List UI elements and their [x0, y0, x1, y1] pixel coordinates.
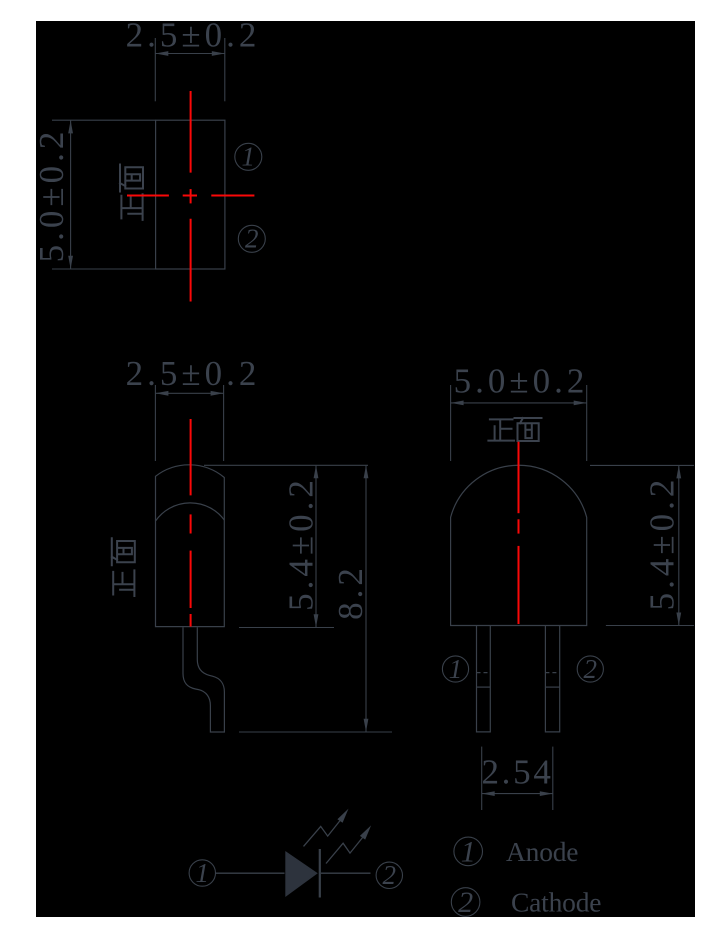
- svg-text:5.0±0.2: 5.0±0.2: [32, 128, 71, 263]
- extension line right: [586, 385, 588, 461]
- extension line left: [481, 747, 483, 810]
- LED front view body (dome): [451, 465, 587, 625]
- front view lead 1: [477, 626, 491, 732]
- extension line right: [552, 747, 554, 810]
- dimension line: [70, 120, 72, 268]
- extension line left: [154, 385, 156, 461]
- light emission arrow 1: [304, 815, 345, 847]
- extension line body bottom: [239, 627, 334, 629]
- schematic pin 2: [376, 860, 402, 890]
- pin callout 2 (front view): [577, 654, 603, 684]
- extension line left: [450, 385, 452, 461]
- LED side view body: [156, 465, 225, 627]
- svg-text:1: 1: [196, 858, 210, 888]
- legend pin 1: [454, 835, 483, 868]
- svg-text:2: 2: [383, 860, 397, 890]
- extension line bottom: [606, 625, 694, 627]
- cathode bar: [319, 849, 321, 898]
- svg-text:1: 1: [449, 654, 463, 684]
- dimension line: [365, 465, 367, 732]
- red centerline horizontal (top view): [127, 195, 169, 197]
- extension line left: [154, 38, 156, 101]
- label 正面 (front face), front view: [488, 419, 514, 440]
- dimension line: [155, 53, 225, 55]
- svg-text:5.0±0.2: 5.0±0.2: [454, 362, 589, 401]
- svg-text:2.54: 2.54: [481, 752, 553, 791]
- extension line right: [223, 385, 225, 461]
- dimension line: [155, 392, 223, 394]
- svg-text:1: 1: [242, 142, 256, 172]
- cathode wire: [321, 872, 371, 874]
- extension line top: [590, 464, 694, 466]
- svg-text:2: 2: [245, 224, 259, 254]
- svg-text:2.5±0.2: 2.5±0.2: [126, 16, 261, 55]
- svg-text:2: 2: [458, 886, 473, 919]
- svg-text:Cathode: Cathode: [511, 887, 601, 918]
- label 正面 (front face), rotated, side view: [113, 570, 134, 596]
- schematic pin 1: [189, 858, 215, 888]
- svg-text:5.4±0.2: 5.4±0.2: [643, 476, 682, 611]
- dimension line: [451, 402, 587, 404]
- anode wire: [216, 872, 285, 874]
- red centerline (side view): [190, 419, 192, 495]
- dimension line: [482, 793, 553, 795]
- red centerline (front view): [518, 442, 520, 514]
- svg-text:2.5±0.2: 2.5±0.2: [126, 354, 261, 393]
- dimension line: [678, 465, 680, 625]
- svg-text:Anode: Anode: [506, 836, 578, 867]
- extension line top (shared with 8.2): [204, 464, 368, 466]
- side view bent lead: [183, 627, 224, 732]
- pin callout 1 (top view): [235, 142, 262, 172]
- label 正面 (front face), rotated: [121, 194, 142, 220]
- svg-text:2: 2: [584, 654, 598, 684]
- extension line top: [52, 119, 156, 121]
- extension line lead bottom: [239, 731, 392, 733]
- extension line right: [224, 38, 226, 101]
- LED top view body rectangle: [156, 120, 225, 269]
- dimension line: [315, 465, 317, 627]
- extension line bottom: [52, 268, 156, 270]
- LED symbol triangle (anode): [285, 851, 318, 897]
- svg-text:5.4±0.2: 5.4±0.2: [282, 476, 321, 611]
- svg-text:1: 1: [461, 835, 476, 868]
- red centerline vertical (top view): [190, 91, 192, 173]
- light emission arrow 2: [326, 832, 367, 864]
- front view lead 2: [545, 626, 559, 732]
- side view dome junction arc: [156, 503, 225, 521]
- pin callout 2 (top view): [238, 224, 265, 254]
- svg-text:8.2: 8.2: [331, 564, 370, 620]
- legend pin 2: [451, 886, 480, 919]
- pin callout 1 (front view): [442, 654, 468, 684]
